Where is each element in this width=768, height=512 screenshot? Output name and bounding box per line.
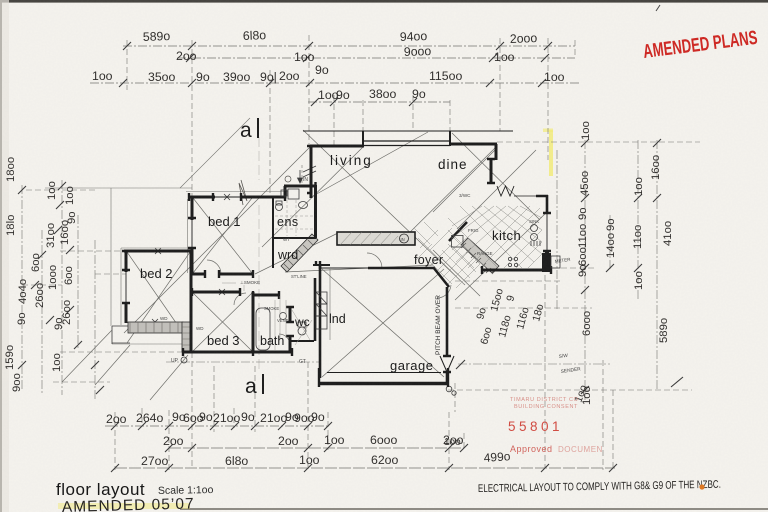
thin line above bed1 top wall: [186, 191, 288, 193]
construction diagonal bed3 X: [193, 293, 252, 351]
wall bath bottom: [253, 351, 293, 354]
left rotated dims: [4, 157, 78, 392]
ens toilet: [276, 204, 283, 211]
yellow highlight through amended: [58, 503, 190, 509]
ens shower: [288, 189, 299, 199]
wall bed2/bed3 divider: [190, 251, 193, 352]
door arc hall-living: [367, 253, 382, 268]
tick at garage right dim: [456, 360, 465, 369]
wall dine right upper: [490, 159, 493, 184]
hall bench cabinet: [337, 232, 415, 245]
wall bed2 top: [124, 250, 192, 253]
wall garage right: [446, 287, 449, 382]
construction diagonal kitchen-foyer: [433, 212, 547, 300]
ens internal dashes: [287, 200, 296, 236]
ens basin: [299, 202, 308, 209]
construction diagonal lower-left spill: [62, 330, 188, 400]
window bed2 left: [125, 270, 127, 305]
bed2 bay outer step: [112, 326, 191, 352]
wall wc bottom: [290, 340, 314, 342]
wc dashes: [292, 310, 312, 345]
door arc bed3: [234, 293, 246, 305]
thin line W to kitch corner: [514, 195, 536, 197]
sliding door lines living top: [364, 141, 450, 146]
wall wc/lnd left: [314, 278, 317, 341]
wall bed3 top: [192, 291, 240, 294]
wall end caps: [122, 146, 551, 387]
left tick marks: [18, 182, 104, 394]
eave vertical left of bed2: [110, 188, 112, 326]
construction diagonal bed1 long: [124, 146, 311, 333]
wall foyer/kitch stub: [433, 267, 449, 287]
window bed1 left: [191, 218, 193, 250]
dimension lines left columns: [22, 180, 95, 400]
construction diagonal kitch long: [433, 148, 497, 212]
dimension line top T1: [123, 45, 575, 47]
section break mark: [239, 180, 247, 205]
up circle: [181, 357, 187, 363]
wall kitch right lower: [545, 251, 549, 272]
wall bed1 left lower: [191, 248, 194, 275]
dim line under bed3: [166, 362, 610, 364]
bottom tick marks: [111, 422, 617, 472]
ens wall cabinets: [281, 190, 287, 196]
entry circle: [285, 176, 291, 182]
dimension line bottom B1: [105, 425, 330, 427]
wall bed1 top: [189, 196, 285, 199]
bath vent lines: [275, 296, 286, 350]
entry arrow IN: [298, 170, 303, 183]
bath basin: [280, 313, 287, 320]
section line a-a: [258, 137, 260, 373]
wall dine top: [449, 144, 497, 160]
scan left soft band: [2, 0, 9, 512]
wall bath left/bed3 right: [252, 292, 255, 352]
yellow highlighter vertical: [549, 130, 553, 176]
dimension line top T4: [308, 101, 450, 103]
nzbc orange dot: [699, 484, 704, 489]
construction diagonal bed2 X: [127, 252, 190, 343]
dimension line top T3: [90, 82, 580, 84]
wall bed1 bottom: [191, 273, 254, 276]
dimension line bottom B2: [169, 447, 464, 449]
entry porch dashes: [301, 165, 303, 184]
wc toilet: [298, 327, 306, 335]
downpipe circles garage: [446, 386, 452, 392]
bay outer line extended: [112, 343, 190, 345]
wall living top connectors: [363, 131, 450, 147]
construction diagonal dine3: [457, 150, 536, 229]
kitch right wall blob: [542, 253, 551, 272]
dimension line bottom B3: [115, 467, 615, 469]
bottom extension verticals: [115, 275, 613, 470]
wall living left jog: [310, 146, 364, 198]
wall bed2 left upper: [125, 250, 128, 272]
bed1 outer wall face: [187, 199, 189, 273]
top tick marks: [119, 42, 552, 106]
door arc foyer entry: [437, 285, 451, 298]
garage door V mark: [440, 356, 454, 372]
dine window W mark: [497, 186, 514, 196]
kitchen bench diagonal hatched: [461, 238, 499, 273]
kitch dots: [508, 257, 511, 260]
window bed1 top: [213, 196, 243, 198]
lnd nook boundary: [329, 269, 331, 340]
construction diagonal living: [303, 130, 465, 285]
bath tub: [256, 308, 270, 350]
left horizontal connectors: [22, 190, 183, 382]
wall hall bottom thick: [368, 267, 433, 270]
eave line above bed wing: [45, 187, 192, 189]
door arc bath: [279, 334, 290, 345]
construction diagonal hall: [255, 232, 433, 274]
scan left edge: [0, 0, 2, 512]
top extension verticals: [127, 35, 575, 196]
window kitch right: [546, 212, 548, 253]
wall bed1 left upper: [191, 196, 194, 220]
right horizontal connectors: [448, 142, 700, 390]
dimension line top T2: [177, 57, 575, 59]
kitch hob circles: [531, 225, 538, 232]
wall kitch bottom: [482, 269, 552, 272]
living wall break marks: [303, 166, 316, 177]
scan top edge: [0, 0, 768, 3]
wall bath top: [253, 294, 279, 297]
wall bath right: [289, 307, 292, 352]
window center x marks: [152, 194, 230, 325]
living/dine eave line: [303, 130, 513, 132]
wall hall/garage top: [313, 265, 368, 268]
construction diagonal living up-right: [313, 132, 428, 196]
pen tick top right: [656, 5, 660, 11]
door arc bed1: [207, 260, 221, 274]
wall ens top jog: [284, 186, 316, 199]
construction diagonal garage X: [322, 269, 444, 377]
lnd shelves: [316, 292, 327, 304]
wall lnd top jog: [313, 264, 330, 266]
garage right rotated dims: [474, 287, 590, 404]
ext line left of bed2: [95, 273, 126, 275]
kitchen floor crosshatch: [448, 206, 542, 268]
wall kitch top-right corner: [536, 195, 548, 213]
wall ens right: [314, 185, 317, 238]
hall marks: [222, 283, 244, 291]
wall ens left: [272, 197, 274, 268]
wall garage bottom: [319, 382, 448, 386]
bed2 bay window band bottom: [128, 322, 183, 333]
kitchen diagonal pantry wall: [449, 222, 467, 241]
dimension lines right columns: [557, 140, 657, 400]
hall bench IN circle: [400, 234, 409, 243]
scan bottom edge line: [180, 508, 768, 510]
wall bed2 left lower: [125, 303, 128, 323]
wall bed3 bottom: [183, 351, 254, 354]
right tick marks: [581, 139, 683, 394]
eave diagonal to section marker: [180, 118, 250, 188]
bed2 side window band: [182, 322, 191, 352]
wrd diagonal hatched wall: [281, 234, 318, 272]
wall garage bottom inner: [327, 372, 441, 374]
wall ens/wrd divider: [273, 237, 316, 239]
yellow highlighter corner: [543, 129, 553, 133]
below garage verticals: [455, 360, 603, 470]
meter box: [551, 256, 560, 268]
bed2 outer wall thin line: [121, 248, 194, 325]
construction diagonal dine2: [452, 133, 540, 220]
construction diagonal bed1 X: [193, 198, 252, 273]
construction diagonal dine: [398, 146, 497, 244]
wall garage left: [319, 265, 322, 378]
construction diagonal living2: [262, 146, 364, 247]
right rotated dims: [577, 121, 674, 405]
kitch frig square: [452, 236, 464, 248]
kitch hatch marks: [531, 241, 540, 246]
foyer floor crosshatch: [414, 222, 480, 288]
